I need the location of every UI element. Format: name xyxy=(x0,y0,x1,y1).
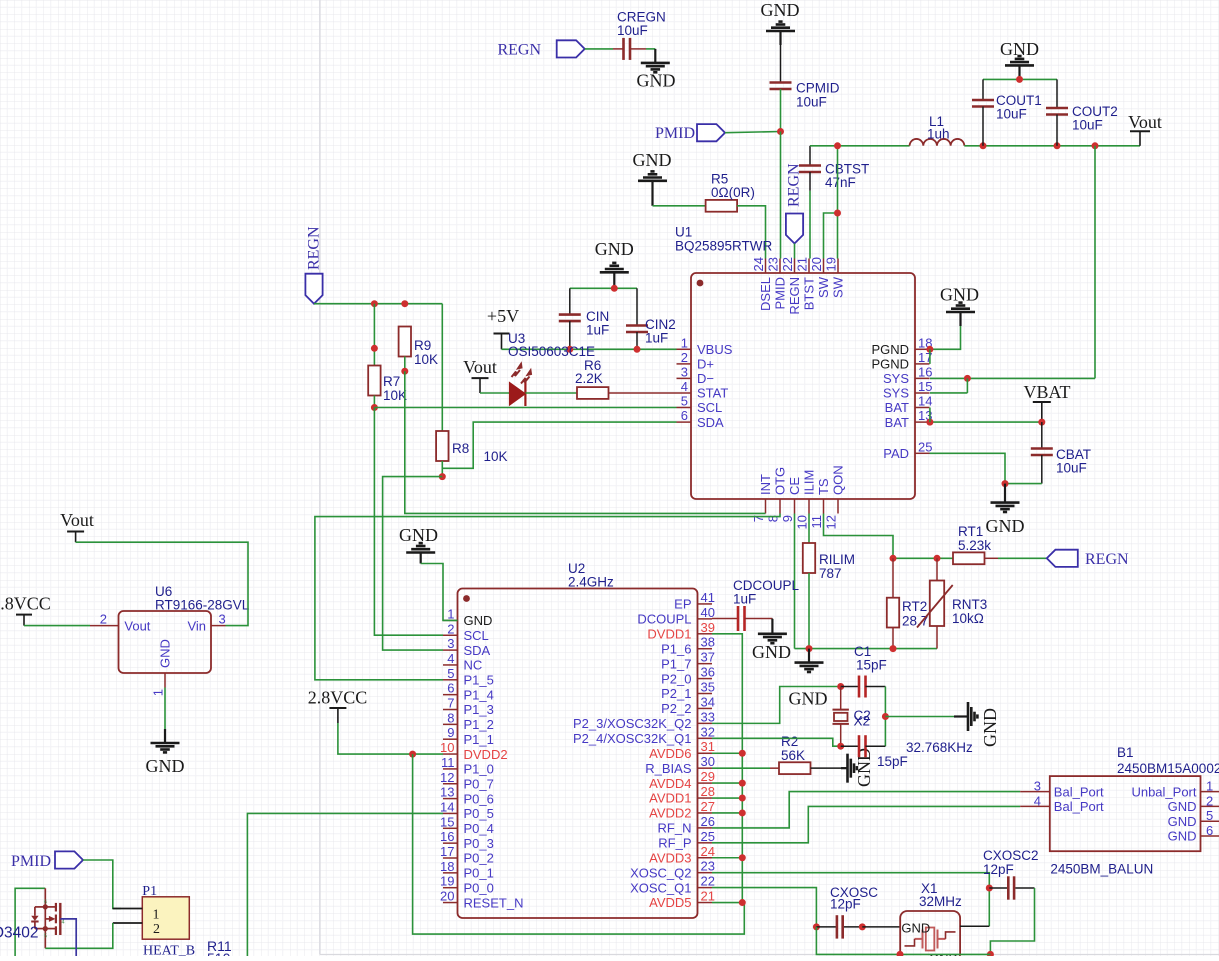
B1 pin 3 Bal_Port xyxy=(1020,779,1104,800)
wire XOSC_Q1 net xyxy=(712,888,816,927)
capacitor CXOSC2 12pF xyxy=(983,848,1039,900)
U1 pin 6 SDA xyxy=(677,408,725,430)
ground (CDCOUPL) xyxy=(752,619,791,662)
svg-text:10uF: 10uF xyxy=(796,95,827,110)
U1 pin 7 INT xyxy=(751,474,773,522)
svg-text:EP: EP xyxy=(674,597,691,612)
inductor L1 1uh xyxy=(910,114,965,146)
wire AVDD pin29 xyxy=(712,782,742,784)
wire pin14 tie xyxy=(929,408,931,423)
B1 pin 5 GND xyxy=(1168,808,1219,829)
wire X1 gnd lead xyxy=(816,927,990,955)
junction DVDD2 xyxy=(409,751,416,758)
svg-text:30: 30 xyxy=(701,754,715,769)
U1 pin 13 BAT xyxy=(885,408,933,430)
U2 pin 35 P2_1 xyxy=(661,680,715,702)
wire SYS to rail xyxy=(930,377,1095,379)
U1 pin 3 D− xyxy=(677,364,714,386)
junction COUT gnd xyxy=(1016,76,1023,83)
svg-text:Bal_Port: Bal_Port xyxy=(1054,784,1104,799)
wire gnd-U2 pin1 xyxy=(421,564,458,621)
svg-text:REGN: REGN xyxy=(306,226,323,270)
svg-text:STAT: STAT xyxy=(697,386,728,401)
port REGN (top-left) xyxy=(497,40,584,58)
ground (R5) xyxy=(633,150,672,206)
svg-text:3: 3 xyxy=(681,364,688,379)
svg-text:GND: GND xyxy=(399,525,438,545)
svg-text:14: 14 xyxy=(918,394,932,409)
resistor R5 0R xyxy=(706,172,755,212)
wire L1-Vout rail xyxy=(964,145,1140,147)
svg-text:6: 6 xyxy=(44,900,47,906)
wire REGN-pin22 xyxy=(794,244,796,259)
U2 pin 7 P1_3 xyxy=(443,696,494,718)
svg-text:SCL: SCL xyxy=(464,628,489,643)
svg-text:9: 9 xyxy=(447,725,454,740)
B1 pin 6 GND xyxy=(1168,823,1219,844)
ground (CREGN) xyxy=(637,49,676,91)
U2 pin 26 RF_N xyxy=(658,814,715,836)
wire BAT xyxy=(930,421,1042,423)
U2 pin 41 EP xyxy=(674,590,715,612)
capacitor C2 15pF xyxy=(841,735,908,769)
U1 pin 12 QON xyxy=(824,465,846,529)
junction CXOSC2 left xyxy=(986,885,993,892)
svg-text:AVDD6: AVDD6 xyxy=(649,746,691,761)
svg-text:D+: D+ xyxy=(697,357,714,372)
U2 pin 39 DVDD1 xyxy=(647,620,715,642)
U2 pin 40 DCOUPL xyxy=(637,605,715,627)
U2 pin 6 P1_4 xyxy=(443,681,494,703)
wire TS net xyxy=(824,514,894,559)
svg-text:4: 4 xyxy=(681,379,688,394)
svg-text:AVDD4: AVDD4 xyxy=(649,776,691,791)
IC U1 BQ25895RTWR body xyxy=(675,225,915,500)
svg-text:GND: GND xyxy=(146,756,185,776)
U2 pin 31 AVDD6 xyxy=(649,739,715,761)
svg-text:PAD: PAD xyxy=(883,446,909,461)
resistor R11 510 label xyxy=(207,938,232,961)
svg-text:36: 36 xyxy=(701,665,715,680)
svg-text:SCL: SCL xyxy=(697,400,722,415)
svg-text:20: 20 xyxy=(809,257,824,271)
U1 pin 9 CE xyxy=(780,477,802,523)
resistor R8 10K xyxy=(436,431,507,464)
junction AVDD pin24 xyxy=(739,854,746,861)
wire X1-right xyxy=(960,925,989,927)
wire gnd-R5 xyxy=(653,205,706,207)
svg-text:Unbal_Port: Unbal_Port xyxy=(1131,784,1196,799)
wire P0_5 net xyxy=(247,813,443,956)
wire pin17-pin18 tie xyxy=(929,349,931,364)
resistor RT2 28.7k xyxy=(887,558,935,648)
svg-text:2.8VCC: 2.8VCC xyxy=(308,687,368,707)
svg-text:CE: CE xyxy=(787,477,802,495)
svg-text:P2_4/XOSC32K_Q1: P2_4/XOSC32K_Q1 xyxy=(573,731,692,746)
wire R6-STAT xyxy=(609,392,677,394)
U2 pin 21 AVDD5 xyxy=(649,889,715,911)
U1 pin 21 BTST xyxy=(795,257,817,310)
U1 pin 1 VBUS xyxy=(677,335,733,357)
U1 pin 11 TS xyxy=(809,478,831,528)
svg-text:GND: GND xyxy=(633,150,672,170)
wire RILIM bottom xyxy=(808,573,810,649)
svg-text:HEAT_B: HEAT_B xyxy=(143,944,195,957)
svg-text:3: 3 xyxy=(447,636,454,651)
svg-text:5: 5 xyxy=(447,666,454,681)
wire OTG-P1_5 net xyxy=(315,514,780,680)
svg-text:P0_6: P0_6 xyxy=(464,791,494,806)
svg-text:P0_5: P0_5 xyxy=(464,806,494,821)
svg-text:38: 38 xyxy=(701,635,715,650)
port REGN (to pin22) xyxy=(785,163,803,244)
svg-text:GND: GND xyxy=(986,516,1025,536)
wire 2.8VCC-DVDD2 xyxy=(338,723,443,754)
svg-text:2: 2 xyxy=(447,621,454,636)
U2 pin 10 DVDD2 xyxy=(440,740,508,762)
svg-text:P2_2: P2_2 xyxy=(661,701,691,716)
wire CREGN-gnd xyxy=(646,48,655,50)
wire ILIM bottom rail xyxy=(795,648,938,650)
U2 pin 22 XOSC_Q1 xyxy=(630,874,715,896)
svg-text:2: 2 xyxy=(1206,793,1213,808)
svg-text:35: 35 xyxy=(701,680,715,695)
svg-text:GND: GND xyxy=(929,951,958,956)
flag 2.8VCC (DVDD2) xyxy=(308,687,368,723)
ground (RILIM) xyxy=(789,649,828,709)
flag Vout (U6) xyxy=(60,510,94,542)
wire R7 top xyxy=(373,304,375,366)
wire AVDD pin31 xyxy=(712,752,742,754)
svg-text:P1_2: P1_2 xyxy=(464,717,494,732)
svg-text:32.768KHz: 32.768KHz xyxy=(906,740,973,755)
svg-text:34: 34 xyxy=(701,694,715,709)
connector P1 body xyxy=(142,884,195,959)
junction SW branch xyxy=(834,210,841,217)
U1 pin 18 PGND xyxy=(871,335,932,357)
U2 pin 37 P1_7 xyxy=(661,650,715,672)
capacitor CBAT 10uF xyxy=(1031,422,1091,484)
U2 pin 2 SCL xyxy=(443,621,489,643)
svg-text:Vout: Vout xyxy=(1128,112,1162,132)
port REGN (right) xyxy=(1047,550,1129,568)
svg-text:8: 8 xyxy=(447,710,454,725)
svg-text:4: 4 xyxy=(1034,793,1041,808)
svg-text:PMID: PMID xyxy=(11,853,51,870)
svg-text:GND: GND xyxy=(761,0,800,20)
svg-text:P1_4: P1_4 xyxy=(464,687,494,702)
U2 pin 20 RESET_N xyxy=(440,889,523,911)
svg-text:1uF: 1uF xyxy=(645,331,668,346)
svg-text:CPMID: CPMID xyxy=(796,81,840,96)
svg-text:P1_3: P1_3 xyxy=(464,702,494,717)
svg-text:O3402: O3402 xyxy=(0,925,39,942)
svg-text:10: 10 xyxy=(440,740,454,755)
wire XOSC32K_Q2 net xyxy=(712,687,841,724)
svg-text:23: 23 xyxy=(766,257,781,271)
junction AVDD pin21 xyxy=(739,899,746,906)
wire AVDD pin24 xyxy=(712,857,742,859)
svg-text:BTST: BTST xyxy=(802,277,817,310)
junction R8-SDA xyxy=(439,473,446,480)
wire DVDD2 rail down xyxy=(413,754,745,934)
U1 pin 19 SW xyxy=(824,257,846,298)
svg-text:25: 25 xyxy=(701,829,715,844)
sheet border xyxy=(319,0,321,955)
svg-text:10uF: 10uF xyxy=(1072,118,1103,133)
svg-text:22: 22 xyxy=(780,257,795,271)
svg-text:XOSC_Q1: XOSC_Q1 xyxy=(630,880,691,895)
U6 pin 1 GND xyxy=(151,639,173,696)
U2 pin 32 P2_4/XOSC32K_Q1 xyxy=(573,724,715,746)
svg-text:22: 22 xyxy=(701,874,715,889)
U2 pin 24 AVDD3 xyxy=(649,844,715,866)
svg-text:29: 29 xyxy=(701,769,715,784)
U2 pin 34 P2_2 xyxy=(661,694,715,716)
U2 pin 3 SDA xyxy=(443,636,491,658)
capacitor CIN 1uF xyxy=(559,288,609,349)
svg-text:0Ω(0R): 0Ω(0R) xyxy=(711,185,755,200)
svg-text:GND: GND xyxy=(595,239,634,259)
junction AVDD pin28 xyxy=(739,795,746,802)
port PMID (top) xyxy=(655,124,725,142)
svg-text:16: 16 xyxy=(918,364,932,379)
svg-text:P0_0: P0_0 xyxy=(464,880,494,895)
svg-text:SYS: SYS xyxy=(883,371,909,386)
svg-text:P1_7: P1_7 xyxy=(661,656,691,671)
svg-text:P0_7: P0_7 xyxy=(464,776,494,791)
svg-text:2.4GHz: 2.4GHz xyxy=(568,575,614,590)
svg-text:CXOSC2: CXOSC2 xyxy=(983,848,1039,863)
B1 pin 4 Bal_Port xyxy=(1020,793,1104,814)
svg-text:10K: 10K xyxy=(414,352,438,367)
U1 pin 5 SCL xyxy=(677,394,723,416)
svg-text:787: 787 xyxy=(819,566,842,581)
svg-text:10K: 10K xyxy=(383,388,407,403)
wire Vout-LED xyxy=(480,392,509,394)
wire Vout-Vin xyxy=(76,542,248,625)
svg-text:6: 6 xyxy=(447,681,454,696)
resistor R9 10K xyxy=(399,327,438,368)
svg-text:GND: GND xyxy=(980,708,1000,747)
svg-text:6: 6 xyxy=(1206,823,1213,838)
svg-text:SW: SW xyxy=(816,276,831,298)
svg-text:12: 12 xyxy=(440,770,454,785)
svg-text:1uF: 1uF xyxy=(586,323,609,338)
wire gnd-CPMID xyxy=(780,45,782,83)
IC U2 2.4GHz body xyxy=(458,561,698,918)
svg-text:P1: P1 xyxy=(142,884,157,899)
U2 pin 12 P0_7 xyxy=(440,770,494,792)
svg-text:1: 1 xyxy=(681,335,688,350)
junction AVDD pin29 xyxy=(739,780,746,787)
wire gnd rail-gnd xyxy=(885,716,954,718)
svg-text:56K: 56K xyxy=(781,748,805,763)
svg-text:P1_0: P1_0 xyxy=(464,762,494,777)
svg-text:19: 19 xyxy=(824,257,839,271)
wire C1-gnd rail xyxy=(884,687,886,747)
svg-text:GND: GND xyxy=(158,639,173,668)
svg-text:P2_0: P2_0 xyxy=(661,671,691,686)
wire CBAT-gnd xyxy=(1005,483,1042,485)
svg-text:33: 33 xyxy=(701,709,715,724)
P1 pin 2 xyxy=(113,922,160,937)
svg-text:24: 24 xyxy=(701,844,715,859)
junction CIN gnd xyxy=(611,285,618,292)
svg-text:DVDD2: DVDD2 xyxy=(464,747,508,762)
U2 pin 1 GND xyxy=(443,606,492,628)
junction RNT3 top xyxy=(934,555,941,562)
P1 pin 1 xyxy=(113,907,160,922)
svg-text:15pF: 15pF xyxy=(877,754,908,769)
svg-text:P1_5: P1_5 xyxy=(464,673,494,688)
svg-text:PMID: PMID xyxy=(773,277,788,310)
U2 pin 29 AVDD4 xyxy=(649,769,715,791)
svg-text:RF_N: RF_N xyxy=(658,821,692,836)
svg-text:QON: QON xyxy=(831,465,846,495)
svg-text:P0_1: P0_1 xyxy=(464,866,494,881)
svg-text:40: 40 xyxy=(701,605,715,620)
svg-text:DSEL: DSEL xyxy=(758,277,773,311)
svg-text:U1: U1 xyxy=(675,225,692,240)
svg-text:32MHz: 32MHz xyxy=(919,894,962,909)
svg-text:11: 11 xyxy=(809,515,824,529)
svg-text:2.2K: 2.2K xyxy=(575,371,603,386)
svg-text:REGN: REGN xyxy=(785,163,802,207)
svg-text:11: 11 xyxy=(441,755,455,770)
U1 pin 22 REGN xyxy=(780,257,802,315)
wire LED-R6 xyxy=(525,392,577,394)
junction X1 gnd xyxy=(897,951,904,958)
crystal X1 32MHz xyxy=(900,881,962,961)
svg-text:VBUS: VBUS xyxy=(697,342,733,357)
svg-text:21: 21 xyxy=(701,889,715,904)
U1 pin 24 DSEL xyxy=(751,257,773,311)
wire REGN-CREGN xyxy=(585,48,613,50)
wire PMID-P1 xyxy=(83,860,121,909)
svg-text:NC: NC xyxy=(464,658,483,673)
svg-text:XOSC_Q2: XOSC_Q2 xyxy=(630,865,691,880)
svg-text:PGND: PGND xyxy=(871,342,909,357)
wire RF_P net xyxy=(712,806,1020,842)
U1 pin 14 BAT xyxy=(885,394,933,416)
svg-text:1uF: 1uF xyxy=(733,592,756,607)
svg-text:39: 39 xyxy=(701,620,715,635)
wire REGN rail xyxy=(314,303,442,305)
svg-text:GND: GND xyxy=(637,71,676,91)
svg-text:16: 16 xyxy=(440,829,454,844)
IC B1 2450BM15A0002 body xyxy=(1050,745,1219,877)
capacitor CPMID 10uF xyxy=(770,81,840,110)
wire SCL net (U1 pin5) xyxy=(374,407,676,409)
ground (PGND) xyxy=(940,285,979,327)
svg-text:1uh: 1uh xyxy=(927,127,950,142)
flag VBAT xyxy=(1023,382,1070,422)
flag Vout (top-right) xyxy=(1128,112,1162,146)
wire CXOSC-X1 xyxy=(862,926,900,928)
wire CXOSC2 loop xyxy=(990,888,1034,954)
svg-text:Vout: Vout xyxy=(60,510,94,530)
U2 pin 27 AVDD2 xyxy=(649,799,715,821)
svg-text:10uF: 10uF xyxy=(1056,461,1087,476)
svg-text:28: 28 xyxy=(701,784,715,799)
svg-text:SW: SW xyxy=(831,276,846,298)
ground (CPMID top) xyxy=(761,0,800,45)
wire COUT top rail xyxy=(983,78,1057,80)
junction AVDD pin27 xyxy=(739,809,746,816)
svg-text:GND: GND xyxy=(752,642,791,662)
svg-text:P1_1: P1_1 xyxy=(464,732,494,747)
svg-text:26: 26 xyxy=(701,814,715,829)
ground (U2 pin1) xyxy=(399,525,438,564)
junction PAD gnd xyxy=(1002,480,1009,487)
svg-text:3: 3 xyxy=(219,612,226,627)
port PMID (bottom) xyxy=(11,851,83,870)
U1 pin 23 PMID xyxy=(766,257,788,309)
svg-text:P0_4: P0_4 xyxy=(464,821,494,836)
resistor R2 56K xyxy=(770,734,848,774)
junction bottom xyxy=(987,951,994,958)
svg-text:D−: D− xyxy=(697,371,714,386)
svg-text:BQ25895RTWR: BQ25895RTWR xyxy=(675,239,773,254)
U2 pin 11 P1_0 xyxy=(441,755,494,777)
B1 pin 1 Unbal_Port xyxy=(1131,779,1219,800)
svg-text:10K: 10K xyxy=(484,449,508,464)
junction X2 bottom xyxy=(837,743,844,750)
U2 pin 14 P0_5 xyxy=(440,799,494,821)
capacitor COUT1 10uF xyxy=(972,79,1042,145)
wire U6 gnd xyxy=(164,688,166,730)
junction RT2 top xyxy=(890,555,897,562)
capacitor CDCOUPL 1uF xyxy=(712,578,800,631)
junction rail-R7 xyxy=(371,300,378,307)
svg-text:P0_2: P0_2 xyxy=(464,851,494,866)
junction R9-INT xyxy=(401,368,408,375)
wire RT1 row xyxy=(893,557,953,559)
U1 pin 16 SYS xyxy=(883,364,932,386)
wire XOSC32K_Q1 net xyxy=(712,738,841,746)
svg-text:P0_3: P0_3 xyxy=(464,836,494,851)
svg-text:P1_6: P1_6 xyxy=(661,641,691,656)
ground (COUT) xyxy=(1000,39,1039,79)
wire node-pin23 xyxy=(780,132,782,259)
svg-text:VBAT: VBAT xyxy=(1023,382,1070,402)
U2 pin 23 XOSC_Q2 xyxy=(630,859,715,881)
svg-text:12: 12 xyxy=(824,515,839,529)
junction SCL xyxy=(371,404,378,411)
svg-text:P2_1: P2_1 xyxy=(661,686,691,701)
svg-text:RT9166-28GVL: RT9166-28GVL xyxy=(155,598,250,613)
crystal X2 32.768KHz xyxy=(833,687,974,756)
U2 pin 19 P0_0 xyxy=(440,874,494,896)
svg-text:RILIM: RILIM xyxy=(819,552,855,567)
svg-text:Bal_Port: Bal_Port xyxy=(1054,799,1104,814)
junction VBAT xyxy=(1038,419,1045,426)
svg-text:BAT: BAT xyxy=(885,415,909,430)
svg-text:GND: GND xyxy=(464,613,493,628)
wire R5-DSEL xyxy=(737,206,765,259)
U2 pin 25 RF_P xyxy=(658,829,715,851)
U2 pin 8 P1_2 xyxy=(443,710,494,732)
svg-text:AVDD3: AVDD3 xyxy=(649,850,691,865)
wire SCL to U2 xyxy=(374,408,443,636)
ground (PAD) xyxy=(986,484,1025,536)
svg-text:41: 41 xyxy=(701,590,715,605)
svg-text:1: 1 xyxy=(153,907,160,922)
U1 pin 10 ILIM xyxy=(795,470,817,530)
svg-text:37: 37 xyxy=(701,650,715,665)
svg-text:23: 23 xyxy=(701,859,715,874)
